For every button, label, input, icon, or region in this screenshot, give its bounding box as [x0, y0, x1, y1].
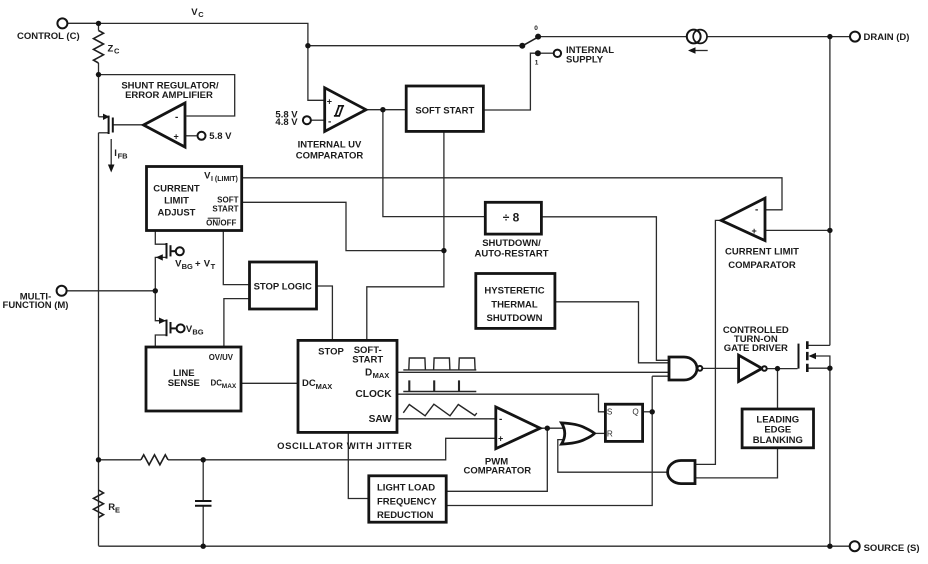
svg-text:-: -	[499, 414, 502, 425]
svg-text:LIGHT LOAD: LIGHT LOAD	[377, 483, 435, 494]
svg-text:DC: DC	[211, 378, 223, 387]
svg-text:START: START	[352, 354, 383, 365]
svg-text:GATE DRIVER: GATE DRIVER	[724, 343, 788, 354]
svg-text:C: C	[198, 10, 204, 19]
svg-text:SAW: SAW	[369, 414, 393, 425]
svg-text:ERROR AMPLIFIER: ERROR AMPLIFIER	[125, 90, 213, 101]
svg-text:LIMIT: LIMIT	[164, 196, 189, 207]
svg-text:MAX: MAX	[373, 371, 390, 380]
svg-text:SENSE: SENSE	[168, 378, 200, 389]
svg-text:D: D	[365, 368, 372, 379]
svg-text:4.8 V: 4.8 V	[275, 117, 298, 128]
svg-text:MAX: MAX	[222, 383, 237, 390]
svg-text:FB: FB	[118, 152, 129, 161]
svg-text:INTERNAL UV: INTERNAL UV	[298, 140, 362, 151]
svg-text:STOP: STOP	[318, 347, 344, 358]
svg-text:EDGE: EDGE	[764, 425, 791, 436]
svg-text:5.8 V: 5.8 V	[209, 131, 232, 142]
svg-text:DRAIN (D): DRAIN (D)	[864, 32, 910, 43]
svg-text:START: START	[212, 205, 238, 214]
svg-text:+: +	[327, 97, 332, 107]
svg-text:STOP LOGIC: STOP LOGIC	[254, 282, 312, 293]
svg-text:+: +	[195, 259, 201, 270]
svg-text:I: I	[114, 148, 117, 159]
svg-text:C: C	[114, 47, 120, 56]
svg-text:T: T	[211, 262, 216, 271]
svg-text:SOURCE (S): SOURCE (S)	[864, 543, 920, 554]
svg-text:SHUTDOWN: SHUTDOWN	[487, 313, 543, 324]
svg-text:CLOCK: CLOCK	[355, 389, 392, 400]
svg-text:-: -	[175, 112, 178, 123]
svg-text:COMPARATOR: COMPARATOR	[728, 260, 796, 271]
svg-text:Q: Q	[632, 408, 638, 417]
svg-text:-: -	[328, 117, 331, 128]
svg-text:OV/UV: OV/UV	[209, 353, 234, 362]
svg-text:REDUCTION: REDUCTION	[377, 510, 434, 521]
svg-text:I (LIMIT): I (LIMIT)	[211, 176, 238, 183]
svg-text:Z: Z	[108, 44, 114, 55]
svg-text:FUNCTION (M): FUNCTION (M)	[3, 300, 69, 311]
svg-text:E: E	[115, 506, 120, 515]
svg-text:+: +	[752, 226, 757, 236]
svg-text:AUTO-RESTART: AUTO-RESTART	[474, 248, 548, 259]
svg-text:CURRENT LIMIT: CURRENT LIMIT	[725, 247, 799, 258]
svg-text:-: -	[755, 205, 758, 216]
svg-text:V: V	[191, 7, 198, 18]
svg-text:ON/OFF: ON/OFF	[206, 218, 236, 227]
svg-text:BLANKING: BLANKING	[753, 435, 803, 446]
svg-text:÷ 8: ÷ 8	[503, 211, 520, 225]
svg-text:CURRENT: CURRENT	[153, 184, 200, 195]
svg-text:1: 1	[535, 60, 539, 67]
svg-text:OSCILLATOR WITH JITTER: OSCILLATOR WITH JITTER	[277, 441, 412, 452]
svg-text:+: +	[498, 434, 503, 444]
svg-text:0: 0	[534, 25, 538, 32]
svg-text:ADJUST: ADJUST	[157, 208, 195, 219]
svg-text:SOFT START: SOFT START	[415, 105, 474, 116]
svg-text:SOFT: SOFT	[217, 196, 238, 205]
svg-text:HYSTERETIC: HYSTERETIC	[484, 286, 544, 297]
svg-text:BG: BG	[192, 327, 203, 336]
svg-text:DC: DC	[302, 378, 316, 389]
svg-text:R: R	[607, 429, 613, 438]
svg-text:S: S	[607, 408, 613, 417]
svg-text:THERMAL: THERMAL	[491, 299, 538, 310]
svg-text:+: +	[174, 132, 179, 142]
svg-text:FREQUENCY: FREQUENCY	[377, 496, 437, 507]
svg-text:SUPPLY: SUPPLY	[566, 55, 604, 66]
svg-text:MAX: MAX	[316, 382, 333, 391]
svg-text:COMPARATOR: COMPARATOR	[464, 465, 532, 476]
svg-text:CONTROL (C): CONTROL (C)	[17, 31, 80, 42]
svg-text:COMPARATOR: COMPARATOR	[296, 151, 364, 162]
svg-text:BG: BG	[182, 262, 193, 271]
